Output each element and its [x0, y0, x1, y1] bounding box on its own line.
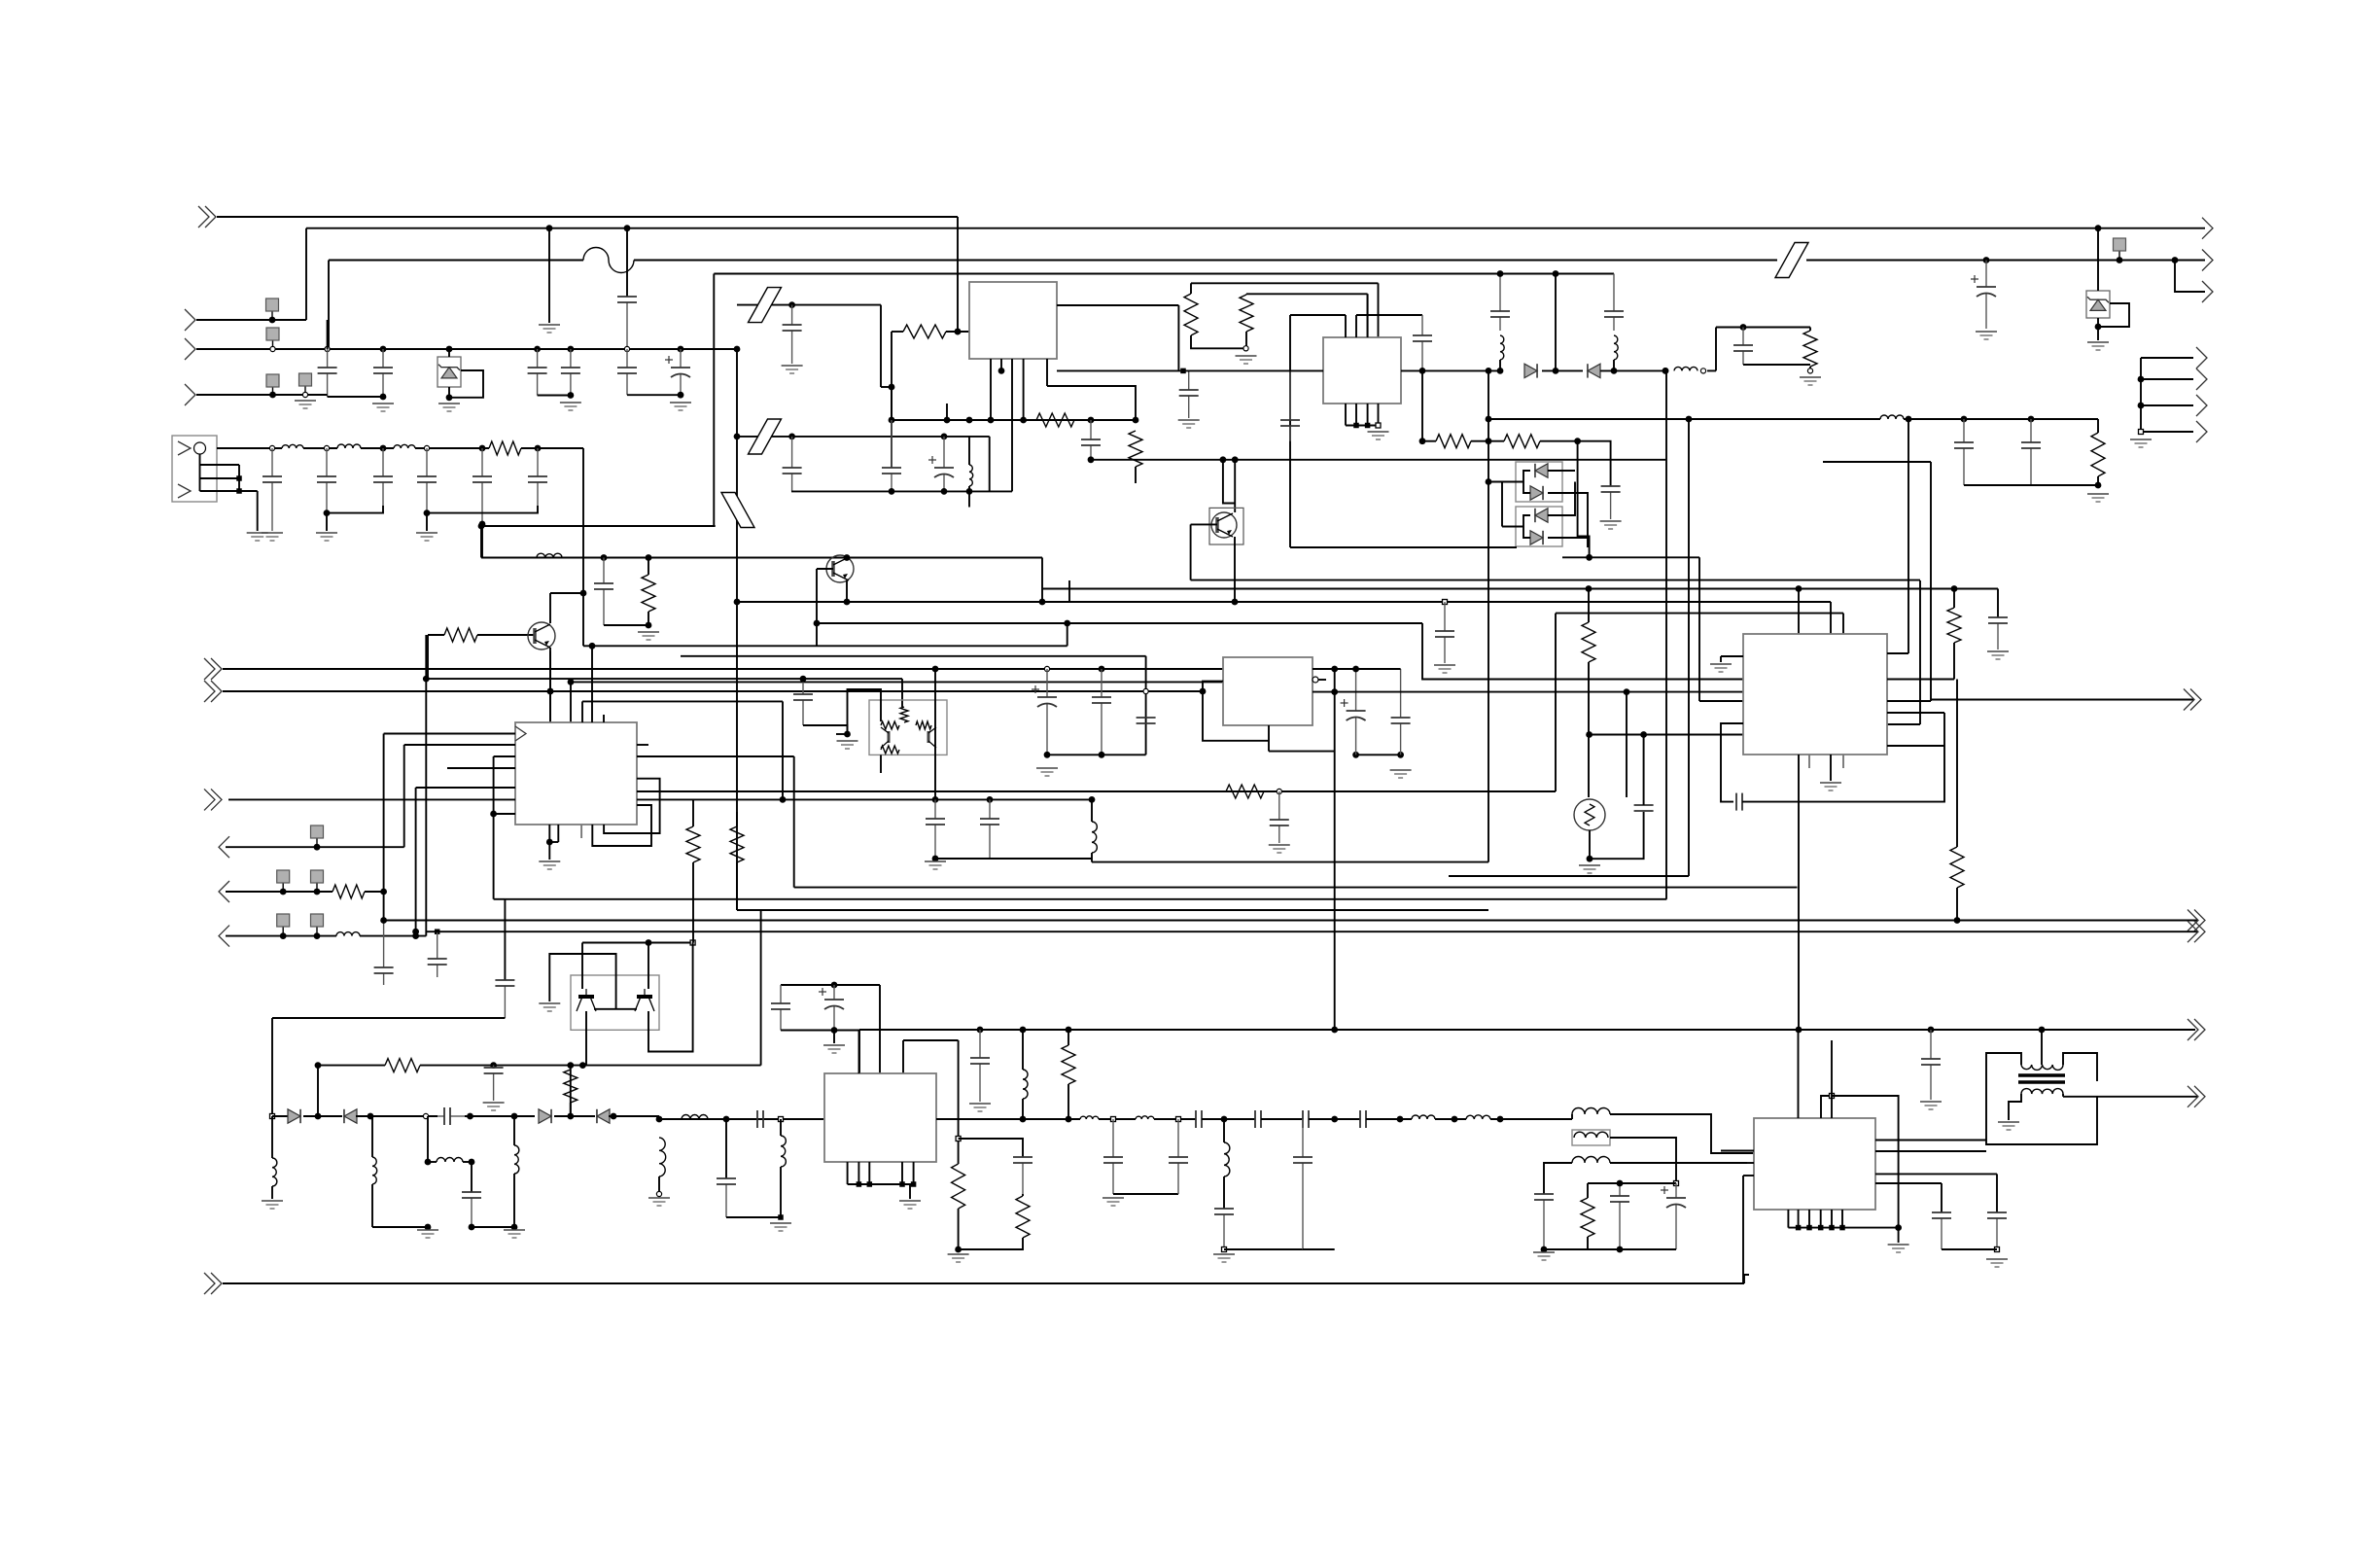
capacitor C-x2055 — [1988, 617, 2008, 650]
wire U3 pin y822 — [228, 798, 515, 800]
node x1052 y1151 — [1020, 1116, 1027, 1123]
wire Ra top — [1190, 283, 1192, 294]
capacitor C-x1340 — [1293, 1119, 1312, 1249]
node x1463 y381 — [1419, 368, 1426, 374]
node x826 y698 — [800, 676, 807, 683]
wire q5 e2 loop — [648, 943, 693, 1052]
capacitor Cf1 x280 — [262, 448, 282, 531]
wire R1633 bot — [1587, 1237, 1589, 1249]
wire J2 gnd drop — [257, 491, 259, 531]
wire x917 — [891, 332, 892, 468]
node u7 x1849 — [1796, 1225, 1802, 1231]
ground x2158 — [2087, 494, 2109, 502]
wire filter y461 c — [361, 447, 394, 449]
wire y573 dd — [1562, 556, 1699, 558]
node x1496 y1151 — [1452, 1116, 1458, 1123]
resistor R-b x1282 — [1240, 295, 1253, 332]
ground q5 base — [539, 1003, 560, 1011]
wire filter y461 e — [521, 447, 583, 449]
wire y324 left — [1290, 314, 1346, 316]
node x1270 y619 — [1232, 599, 1239, 606]
node x1212 y1151 — [1176, 1117, 1181, 1122]
zener D-z2 box — [2086, 291, 2110, 318]
wire J2 gnd link — [239, 490, 258, 492]
wire y1095a — [318, 1065, 385, 1067]
node x1964 y433 — [1906, 416, 1912, 423]
wire Q6 base — [1191, 523, 1217, 525]
node x974 y432 — [944, 417, 951, 424]
wire x858 gnd — [833, 1031, 835, 1044]
wire x1673 long — [1626, 692, 1627, 797]
capacitor C-x1486 — [1435, 602, 1454, 663]
wire x1600 — [1555, 274, 1557, 371]
wire rail1148 e — [554, 1115, 595, 1117]
wire y962 a — [226, 935, 336, 937]
wire L1123 dn — [1091, 853, 1093, 862]
wire x587 dn — [570, 1066, 572, 1116]
wire x1327 seg2 — [1289, 447, 1291, 547]
resistor R-filter — [489, 441, 521, 455]
connector out < y917 — [219, 881, 229, 902]
resistor R-x1168 — [1129, 431, 1142, 467]
wire Q2 emitter — [549, 648, 551, 722]
wire y641 — [817, 622, 1422, 624]
resistor R-y432 — [1036, 413, 1074, 427]
node x871 y619 — [844, 599, 851, 606]
wire x315 riser — [305, 228, 307, 320]
wire T2 w3 out — [1610, 1162, 1747, 1164]
IC U7 pin x1849 up — [1798, 1030, 1800, 1118]
wire rail y1285c — [1620, 1248, 1676, 1250]
node x553 y461 — [535, 445, 542, 452]
wire pin x1077 route — [1047, 386, 1136, 420]
ground x678 — [648, 1198, 670, 1206]
node x587 y701 — [568, 679, 575, 685]
wire cap rail c — [627, 394, 681, 396]
jumper J-B — [749, 419, 782, 454]
wire L280 top — [271, 1116, 273, 1158]
ground RT1 — [1579, 865, 1600, 873]
wire diode line left — [1057, 369, 1323, 371]
resistor R-x1052 — [1016, 1196, 1030, 1238]
node J2 b — [236, 488, 242, 494]
node x587 y359 — [568, 346, 575, 353]
wire D1-D2 — [1542, 369, 1583, 371]
wire y1217 seg — [1588, 1182, 1676, 1184]
wire Rb top — [1245, 293, 1247, 296]
wire filter y461 d — [415, 447, 489, 449]
wire L803 top — [780, 1119, 782, 1136]
capacitor C-x1132 — [1092, 669, 1111, 755]
node x1394 y776 — [1352, 752, 1359, 758]
node x1217 y381 — [1180, 369, 1186, 374]
node x1463 y453 — [1419, 438, 1426, 444]
wire rail y505 — [791, 490, 1012, 492]
wire rail y1285b — [1544, 1248, 1620, 1250]
connector J2 stub3 — [200, 490, 240, 492]
node x394 y917 — [380, 889, 387, 895]
resistor R-x2158 — [2091, 433, 2105, 476]
connector J2 circle — [194, 442, 206, 454]
wire zener loop right — [2098, 303, 2129, 327]
DD1b right wire — [1548, 493, 1588, 547]
wire y1059 rail — [781, 1030, 859, 1032]
wire rail1151 right i — [1490, 1118, 1572, 1120]
node x280 y461 — [269, 445, 274, 450]
wire y886 right — [1092, 861, 1488, 863]
IC U6 pin x883 up — [858, 1031, 860, 1074]
IC U5 pin y733 — [1887, 712, 1944, 714]
wire therm cap loop — [1590, 812, 1644, 859]
wire u7 gnd stub — [1898, 1228, 1900, 1243]
node x439 y461 — [424, 445, 429, 450]
wire L1259 dn — [1223, 1176, 1225, 1209]
DD2a right wire — [1548, 482, 1575, 516]
wire x1600 riser — [1555, 614, 1557, 791]
ground x1076 — [1036, 768, 1058, 776]
diode DD1a — [1535, 464, 1548, 477]
inductor L-y429 — [1880, 415, 1904, 419]
node x1666 y1285 — [1617, 1247, 1624, 1253]
IC U3 clock mark — [515, 726, 526, 741]
wire Cf4 gnd — [426, 513, 428, 531]
ground Cf2 — [316, 533, 337, 541]
pad x291 y917 — [277, 870, 290, 892]
capacitor C-x1327 — [1280, 370, 1300, 440]
wire x1975 drop — [1919, 580, 1921, 724]
node x1122 y432 — [1088, 417, 1095, 424]
wire R667 top — [647, 558, 649, 576]
node u7 x1895 — [1839, 1225, 1845, 1231]
capacitor C-x962 — [926, 799, 945, 859]
node x314 y406 — [302, 392, 307, 397]
node x1600 y281 — [1553, 270, 1559, 277]
node x1543 y1151 — [1497, 1116, 1504, 1123]
IC U7 pin bottom 4 — [1820, 1210, 1822, 1228]
wire R985 bot — [958, 1209, 960, 1249]
IC U7 pin bottom 5 — [1831, 1210, 1833, 1228]
resistor R-x667 — [642, 575, 655, 612]
wire L1543 down — [1499, 360, 1501, 370]
capacitor C-x518 — [495, 980, 514, 1018]
capacitor C-x1997b — [1932, 1212, 1951, 1249]
wire y313 jumper line — [737, 304, 881, 306]
connector arrow y1127 — [2187, 1086, 2205, 1107]
wire bus y267 right — [634, 260, 1777, 262]
node x1008 y1059 — [977, 1027, 984, 1034]
node x758 y619 — [734, 599, 741, 606]
node x962 y883 — [932, 856, 939, 862]
node x566 y711b — [547, 688, 554, 695]
node x803 y1151 — [779, 1117, 784, 1122]
node J2 a — [236, 475, 242, 481]
wire bus y267 left — [329, 260, 583, 262]
wire R2010a top — [1953, 589, 1955, 609]
diode D4 — [344, 1109, 357, 1123]
node x1030 y381 — [998, 368, 1005, 374]
node x483 y1148 — [467, 1113, 473, 1120]
wire U3 pin y837 — [494, 813, 515, 815]
wire rail1148 c — [356, 1115, 437, 1117]
node x2020 y433 — [1961, 416, 1968, 423]
capacitor C-y1148 — [437, 1107, 465, 1125]
current mirror Q3 box — [869, 700, 947, 755]
IC U3 pin x621 stub — [603, 715, 605, 722]
wire mirror right — [934, 669, 936, 799]
wire U3 out y778r — [637, 755, 794, 757]
IC U1 pin x1041 — [1011, 359, 1013, 491]
T1 sec left — [2009, 1094, 2021, 1120]
wire R2158 bot — [2097, 476, 2099, 485]
wire x1793 dn — [1742, 1176, 1744, 1283]
resistor R-x2010b — [1950, 847, 1964, 888]
wire U7 gnd bar — [1788, 1227, 1898, 1229]
ground x280 — [262, 1201, 283, 1209]
wire R667 bot — [647, 612, 649, 625]
wire x1765 — [1715, 328, 1717, 371]
node x485 y1262 — [469, 1224, 475, 1231]
node x565 y235 — [546, 225, 553, 231]
wire y606 — [1042, 588, 1998, 590]
ground x2055 — [1987, 651, 2009, 659]
ground x1145 — [1102, 1198, 1124, 1206]
wire y1320 jog — [1744, 1275, 1749, 1283]
node x1052 y432 — [1020, 417, 1027, 424]
node x645 y359 — [624, 346, 629, 351]
IC U3 pin x565 dn — [548, 825, 550, 842]
wire R1862 bot — [1809, 367, 1811, 369]
node x439 y528 — [424, 509, 431, 516]
IC U7 pin y1220 — [1875, 1182, 1942, 1184]
wire U3 pin y778 — [494, 755, 515, 757]
ground Cf1 — [262, 533, 283, 541]
node x1531 y453 — [1486, 438, 1492, 444]
wire rail1151 right c — [1154, 1118, 1196, 1120]
node x1531 y381 — [1486, 368, 1492, 374]
DD1 in — [1488, 481, 1523, 483]
node x985 y341b — [955, 329, 962, 335]
capacitor C2 x394 — [373, 349, 393, 397]
wire q5 c1 — [581, 943, 583, 990]
node x1713 y381 — [1662, 368, 1669, 374]
wire x1168 down — [1135, 467, 1137, 483]
diode D2 — [1588, 364, 1600, 377]
wire U3 out y814 — [637, 790, 1556, 792]
connector in >> y711 — [204, 681, 222, 702]
resistor R-x1862 — [1803, 331, 1817, 367]
ground T1 — [1998, 1122, 2019, 1130]
zener D-z1 top lead — [448, 349, 450, 357]
wire rail y499 — [1964, 484, 2098, 486]
wire band y958 — [426, 931, 2197, 932]
ground x985 — [948, 1254, 969, 1262]
node x529 y1148 — [511, 1113, 518, 1120]
IC U2 pin x1395 up — [1355, 315, 1357, 337]
ground J2 — [247, 533, 268, 541]
ground x871 — [837, 741, 858, 749]
wire x1406 drop — [1367, 294, 1369, 337]
capacitor C-x1212 — [1169, 1119, 1188, 1194]
connector J1 arrow >> — [198, 206, 216, 228]
node x394 y408 — [380, 394, 387, 401]
node x1793 y337 — [1740, 324, 1747, 331]
node x1237 y710 — [1200, 688, 1207, 695]
wire y1207 corner — [1996, 1174, 1998, 1212]
resistor R-y1095 — [385, 1059, 420, 1072]
ground U5 bottom — [1820, 783, 1841, 790]
DD2 int left — [1523, 515, 1530, 538]
capacitor C-x1180 — [1137, 718, 1156, 723]
inductor L-x383 — [372, 1157, 377, 1184]
resistor R-x1633b — [1581, 1198, 1594, 1237]
wire Q2 coll elbow — [550, 592, 583, 594]
inductor L3 — [394, 444, 415, 448]
node x962 y688 — [932, 666, 939, 673]
wire y1095b — [420, 1065, 761, 1067]
wire x1340 rail — [1303, 1248, 1335, 1250]
wire L997 up — [968, 437, 970, 465]
ground x507 — [483, 1103, 505, 1110]
wire x928 drop — [901, 679, 903, 707]
capacitor C-x507 — [484, 1066, 504, 1101]
wire x1737 long — [1688, 419, 1690, 876]
inductor L-x1259 — [1224, 1142, 1230, 1176]
wire filter y461 b — [303, 447, 337, 449]
wire x747 dn — [725, 1119, 727, 1178]
IC U2 pin x1406 dn — [1367, 404, 1369, 426]
node x2202 y390 — [2138, 376, 2145, 383]
diode DD2a — [1535, 509, 1548, 522]
ground x1008 — [969, 1104, 991, 1111]
wire cap rail b — [538, 395, 571, 397]
node x858 y1059 — [831, 1027, 838, 1034]
dual transistor Q5 box — [571, 975, 659, 1030]
node dd1 in — [1486, 478, 1492, 485]
wire x1178 drop — [1145, 656, 1147, 755]
IC U5 gnd stub — [1720, 656, 1722, 662]
node x1635 y883 — [1587, 856, 1593, 862]
wire x1463 seg — [1421, 370, 1423, 440]
pad at x280 y359 — [266, 328, 279, 349]
wire rail y883 — [935, 858, 1092, 860]
wire R1099 top — [1067, 1030, 1069, 1045]
wire x1531 seg — [1487, 370, 1489, 440]
wire y822 east — [637, 798, 1092, 800]
ground x1224 — [1178, 420, 1200, 428]
pad x326 y917 — [311, 870, 324, 892]
wire L383 top — [371, 1116, 373, 1157]
node x1394 y688 — [1352, 666, 1359, 673]
capacitor C6 at x645 — [617, 297, 637, 349]
wire L1052 top — [1022, 1030, 1024, 1070]
ground x587 — [560, 403, 581, 410]
wire x985 down to R-IC-A — [957, 217, 959, 332]
wire bus y235 — [306, 228, 2205, 229]
wire R713 top — [692, 799, 694, 826]
connector J2 box — [172, 436, 217, 502]
IC U7 pin bottom 3 — [1808, 1210, 1810, 1228]
transistor Q1 — [826, 555, 854, 582]
wire filter y461 a — [217, 447, 282, 449]
wire L997 down — [968, 486, 970, 508]
node x280 y359 — [270, 346, 275, 351]
resistor Rm2 — [881, 721, 899, 729]
node x1372 y688 — [1331, 666, 1338, 673]
wire T1 feed — [2041, 1030, 2043, 1065]
wire y281 bus — [714, 273, 1614, 275]
wire x438 low — [425, 679, 427, 936]
wire Q2 collector — [549, 593, 551, 623]
node x1099 y1151 — [1066, 1116, 1072, 1123]
wire y755 left — [836, 733, 848, 735]
node x1952 y1262 — [1895, 1224, 1902, 1231]
connector arrow y946 — [2187, 910, 2205, 931]
wire y962 b — [360, 935, 426, 937]
node x2180 y267 — [2117, 257, 2123, 263]
node x757 y448 — [734, 434, 741, 440]
wire x1097 jog — [1067, 623, 1068, 646]
dual diode DD1 box — [1516, 462, 1562, 502]
wire y329 — [196, 319, 306, 321]
wire D2 right — [1600, 369, 1665, 371]
wire x1986 top — [1930, 461, 1932, 463]
node x645 y235 — [624, 225, 631, 231]
node x814 y448 — [788, 434, 795, 440]
ground x1656 — [1600, 521, 1622, 529]
wire rail y1262a — [372, 1226, 428, 1228]
wire cap1793 join — [1743, 364, 1810, 366]
IC U7 top loop — [1821, 1096, 1832, 1118]
node x1178 y710 — [1143, 688, 1148, 693]
capacitor C-y1151c — [1255, 1110, 1261, 1128]
capacitor C3 x552 — [528, 349, 547, 396]
node x997 y505 — [966, 488, 973, 495]
capacitor C4 x587 — [561, 349, 580, 396]
wire mirror feed — [848, 689, 882, 734]
wire x884 dn — [858, 1031, 860, 1075]
wire x929 dn — [902, 1040, 904, 1074]
resistor R-y814 — [1226, 785, 1264, 798]
wire x485 dn — [471, 1162, 472, 1192]
inductor T2 w3 — [1572, 1157, 1610, 1164]
capacitor C1 x336 — [318, 349, 337, 397]
node x1372 y1151 — [1331, 1116, 1338, 1123]
capacitor C-x1986b — [1921, 1030, 1941, 1100]
wire y1013 rail — [781, 984, 880, 986]
wire y429 — [1488, 418, 1880, 420]
wire bus y432 — [892, 419, 1136, 421]
zener D-z2 top lead — [2097, 228, 2099, 291]
T1 frame left — [1986, 1053, 2097, 1144]
wire ICA right pin — [1057, 304, 1178, 306]
ground x1588 — [1533, 1252, 1555, 1260]
wire rail y1262b — [472, 1226, 514, 1228]
node x326 y962 — [314, 932, 321, 939]
wire x1212 drop — [1177, 305, 1179, 370]
wire cap rail a — [328, 396, 383, 398]
node x1543 y381 — [1497, 368, 1504, 374]
node x462 y359 — [446, 346, 453, 353]
wire y541 — [482, 525, 716, 527]
IC U6 pin b5 — [913, 1162, 915, 1184]
diode D6 — [597, 1109, 610, 1123]
wire rail1148 g — [659, 1118, 823, 1120]
node x2158 y235 — [2095, 225, 2102, 231]
node x997 y432 — [966, 417, 973, 424]
jumper J-A — [749, 288, 782, 323]
wire bus y1059 — [859, 1029, 2195, 1031]
wire y433 — [1904, 418, 2098, 420]
